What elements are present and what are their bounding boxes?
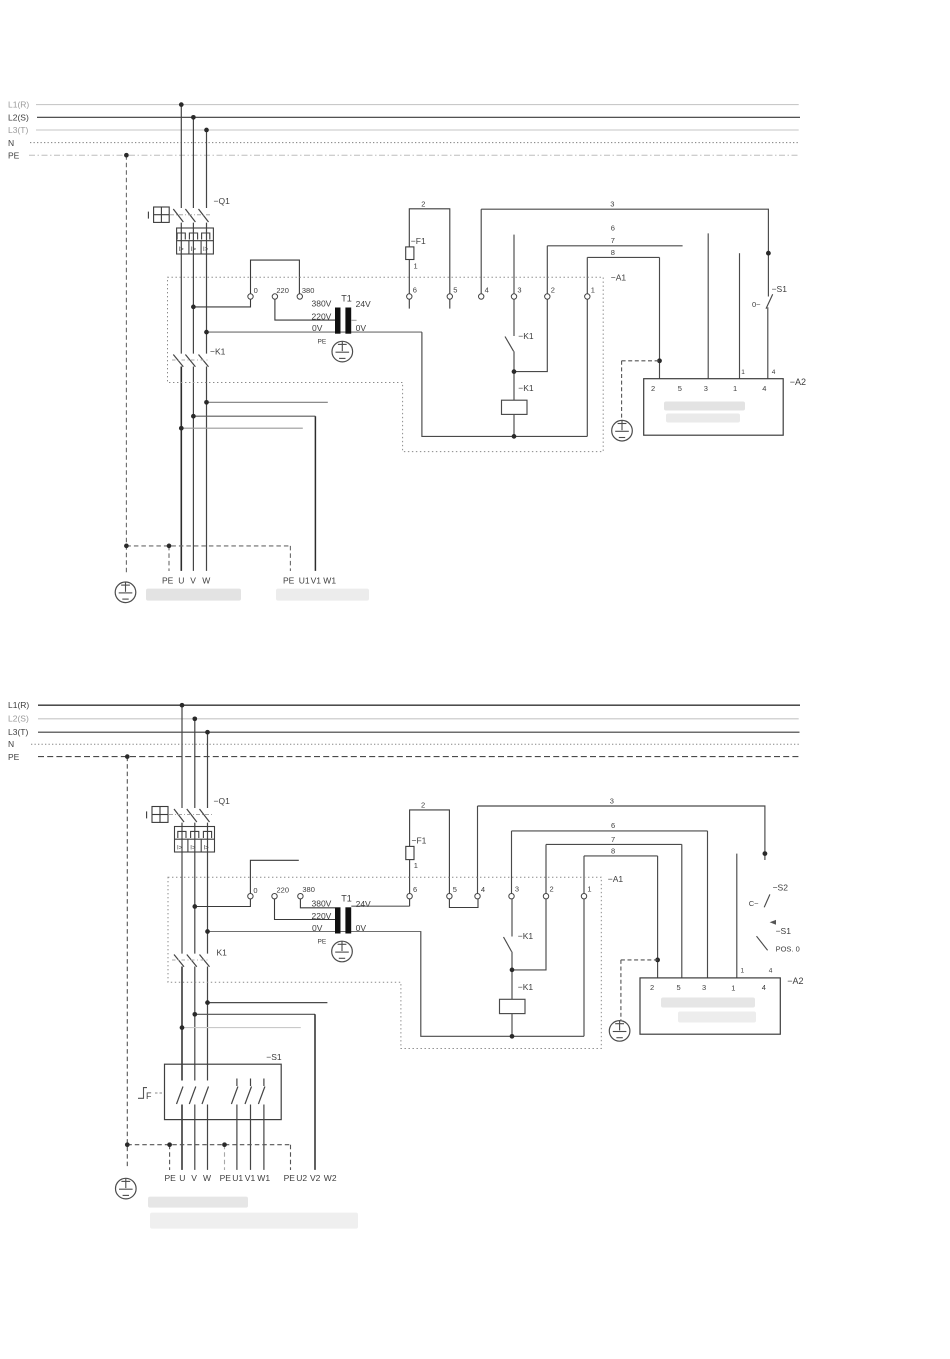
- svg-text:1: 1: [731, 983, 735, 992]
- svg-text:−S2: −S2: [773, 883, 789, 893]
- svg-text:4: 4: [485, 285, 489, 294]
- svg-text:220V: 220V: [312, 911, 332, 921]
- svg-text:I>: I>: [203, 247, 209, 253]
- svg-text:1: 1: [733, 384, 737, 393]
- svg-text:4: 4: [481, 885, 485, 894]
- svg-text:2: 2: [421, 801, 425, 810]
- svg-text:−K1: −K1: [518, 931, 534, 941]
- svg-text:3: 3: [704, 384, 708, 393]
- svg-text:3: 3: [515, 885, 519, 894]
- svg-text:N: N: [8, 739, 14, 749]
- svg-text:5: 5: [453, 885, 457, 894]
- svg-text:3: 3: [702, 983, 706, 992]
- svg-text:PE: PE: [8, 151, 20, 161]
- svg-text:L1(R): L1(R): [8, 700, 29, 710]
- svg-text:V2: V2: [310, 1173, 321, 1183]
- svg-text:0V: 0V: [312, 323, 323, 333]
- svg-text:PE: PE: [165, 1173, 177, 1183]
- svg-text:3: 3: [610, 796, 614, 805]
- svg-text:24V: 24V: [356, 299, 371, 309]
- svg-text:0V: 0V: [356, 923, 367, 933]
- svg-text:−S1: −S1: [266, 1052, 282, 1062]
- svg-text:1: 1: [587, 885, 591, 894]
- svg-text:−K1: −K1: [518, 982, 534, 992]
- svg-text:I>: I>: [179, 247, 185, 253]
- svg-text:2: 2: [421, 200, 425, 209]
- svg-text:0V: 0V: [312, 923, 323, 933]
- svg-text:W: W: [203, 1173, 211, 1183]
- svg-text:4: 4: [769, 968, 773, 975]
- svg-text:K1: K1: [217, 948, 228, 958]
- svg-text:C~: C~: [749, 899, 759, 908]
- svg-text:380: 380: [302, 885, 315, 894]
- svg-text:5: 5: [678, 384, 682, 393]
- svg-text:1: 1: [741, 369, 745, 376]
- svg-text:I>: I>: [204, 845, 210, 851]
- svg-text:380: 380: [302, 286, 315, 295]
- svg-text:5: 5: [677, 983, 681, 992]
- svg-text:PE: PE: [284, 1173, 296, 1183]
- svg-text:3: 3: [610, 200, 614, 209]
- svg-text:W: W: [202, 576, 210, 586]
- svg-text:6: 6: [413, 285, 417, 294]
- svg-text:380V: 380V: [312, 298, 332, 308]
- svg-text:8: 8: [611, 846, 615, 855]
- svg-text:PE: PE: [8, 752, 20, 762]
- svg-text:4: 4: [762, 384, 766, 393]
- svg-text:6: 6: [611, 821, 615, 830]
- svg-text:V1: V1: [311, 576, 322, 586]
- svg-text:380V: 380V: [312, 899, 332, 909]
- svg-text:−K1: −K1: [210, 347, 226, 357]
- svg-text:N: N: [8, 138, 14, 148]
- svg-text:4: 4: [772, 369, 776, 376]
- svg-text:T1: T1: [341, 293, 352, 303]
- svg-text:F: F: [146, 1091, 152, 1101]
- svg-text:−A1: −A1: [608, 874, 624, 884]
- svg-text:−Q1: −Q1: [214, 196, 231, 206]
- svg-text:−K1: −K1: [518, 383, 534, 393]
- svg-text:−S1: −S1: [772, 284, 788, 294]
- svg-text:L3(T): L3(T): [8, 727, 28, 737]
- svg-text:W1: W1: [323, 576, 336, 586]
- svg-text:−A2: −A2: [790, 377, 806, 387]
- svg-text:5: 5: [453, 285, 457, 294]
- svg-text:2: 2: [550, 885, 554, 894]
- svg-text:3: 3: [517, 285, 521, 294]
- svg-text:−A2: −A2: [787, 976, 803, 986]
- svg-text:220V: 220V: [312, 312, 332, 322]
- svg-text:I>: I>: [177, 845, 183, 851]
- svg-text:220: 220: [276, 286, 289, 295]
- svg-text:U1: U1: [232, 1173, 243, 1183]
- svg-text:2: 2: [551, 285, 555, 294]
- svg-text:W2: W2: [324, 1173, 337, 1183]
- svg-text:24V: 24V: [356, 899, 371, 909]
- svg-text:0: 0: [253, 886, 257, 895]
- svg-text:6: 6: [413, 885, 417, 894]
- svg-text:−A1: −A1: [611, 273, 627, 283]
- svg-text:2: 2: [650, 983, 654, 992]
- svg-text:T1: T1: [341, 893, 352, 903]
- svg-text:PE: PE: [162, 576, 174, 586]
- svg-text:V1: V1: [245, 1173, 256, 1183]
- svg-text:PE: PE: [283, 576, 295, 586]
- svg-text:7: 7: [611, 236, 615, 245]
- svg-text:0V: 0V: [356, 323, 367, 333]
- svg-text:W1: W1: [257, 1173, 270, 1183]
- svg-text:POS. 0: POS. 0: [776, 945, 800, 954]
- svg-text:−S1: −S1: [776, 926, 792, 936]
- svg-text:PE: PE: [318, 339, 327, 346]
- svg-text:1: 1: [414, 861, 418, 870]
- svg-text:L2(S): L2(S): [8, 112, 29, 122]
- svg-text:PE: PE: [318, 938, 327, 945]
- svg-text:I>: I>: [190, 845, 196, 851]
- svg-text:1: 1: [591, 285, 595, 294]
- svg-text:V: V: [190, 576, 196, 586]
- svg-text:U: U: [178, 576, 184, 586]
- svg-text:1: 1: [414, 262, 418, 271]
- svg-text:U: U: [179, 1173, 185, 1183]
- svg-text:8: 8: [611, 248, 615, 257]
- svg-text:L3(T): L3(T): [8, 125, 28, 135]
- svg-text:L1(R): L1(R): [8, 100, 29, 110]
- svg-text:V: V: [191, 1173, 197, 1183]
- svg-text:U2: U2: [296, 1173, 307, 1183]
- svg-text:4: 4: [762, 983, 766, 992]
- svg-text:2: 2: [651, 384, 655, 393]
- svg-text:−F1: −F1: [412, 835, 427, 845]
- svg-text:I>: I>: [191, 247, 197, 253]
- svg-text:6: 6: [611, 224, 615, 233]
- svg-text:7: 7: [611, 835, 615, 844]
- svg-text:L2(S): L2(S): [8, 713, 29, 723]
- svg-text:PE: PE: [220, 1173, 232, 1183]
- svg-text:U1: U1: [299, 576, 310, 586]
- svg-text:1: 1: [741, 967, 745, 974]
- svg-text:0~: 0~: [752, 300, 761, 309]
- svg-text:−F1: −F1: [411, 236, 426, 246]
- svg-text:0: 0: [254, 286, 258, 295]
- svg-text:220: 220: [277, 885, 290, 894]
- svg-text:−Q1: −Q1: [214, 796, 231, 806]
- svg-text:−K1: −K1: [518, 331, 534, 341]
